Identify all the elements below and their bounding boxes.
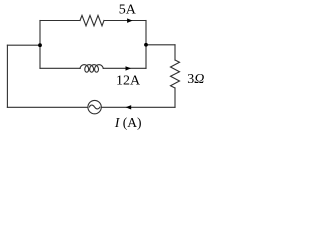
resistor top (5A branch) [80,15,104,25]
wire: right feed horizontal [146,44,175,46]
resistor 3ohm vertical [171,60,180,88]
svg-text:3Ω: 3Ω [187,72,204,87]
source circle (AC current source) [88,100,101,113]
sine symbol inside source [89,105,100,109]
wire: left branch vertical [39,21,41,69]
inductor L (12A branch) [80,65,103,73]
arrow 12A current (right) [126,66,132,70]
wire: right outer vertical upper [174,45,176,60]
junction dot right [144,43,148,47]
wire: top branch left lead [40,20,80,22]
svg-text:5A: 5A [119,3,137,18]
arrow I current (left) [126,105,132,109]
wire: bottom right segment [101,106,175,108]
wire: right branch vertical [145,21,147,69]
wire: top branch right lead [104,20,146,22]
wire: left feed horizontal [7,44,40,46]
wire: middle branch left lead [40,67,80,69]
arrow 5A current (right) [127,18,133,23]
wire: left outer vertical [6,45,8,107]
svg-text:12A: 12A [116,73,141,88]
svg-text:I (A): I (A) [114,115,142,130]
junction dot left [38,43,42,47]
wire: bottom left segment [7,106,88,108]
wire: middle branch right lead [103,67,146,69]
wire: right outer vertical lower [174,88,176,107]
